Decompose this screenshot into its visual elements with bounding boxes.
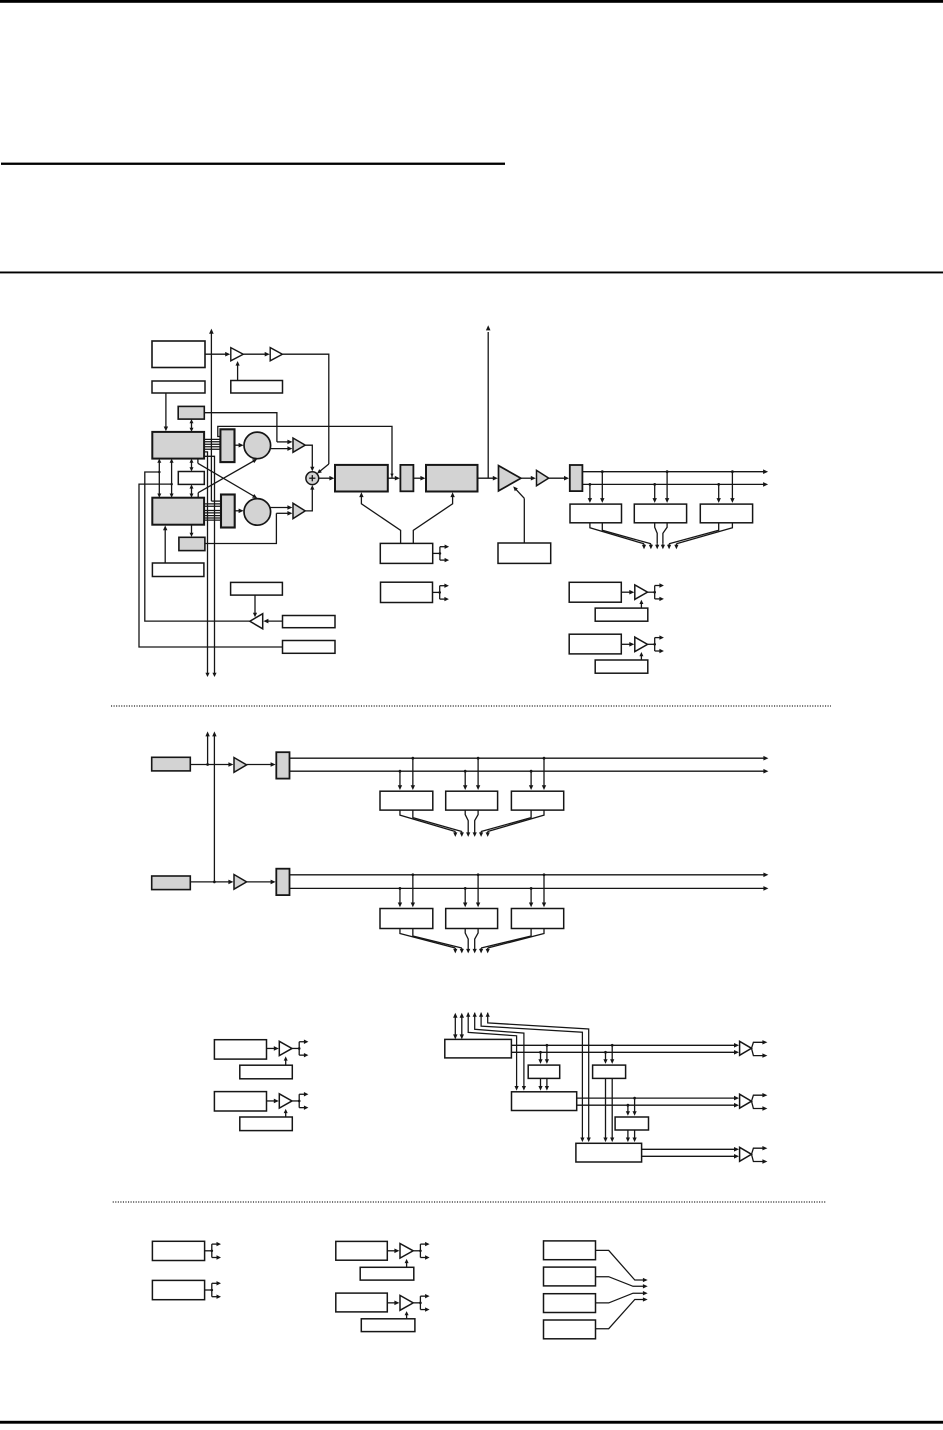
wire latch A out 2 to divider block bbox=[545, 1078, 549, 1090]
block attenuator bbox=[400, 465, 413, 491]
bus modulator I to filter I line 2 bbox=[204, 441, 220, 443]
bus stub 2 to serial interface bbox=[460, 1013, 464, 1040]
bus modulator I to filter I line 4 bbox=[204, 446, 220, 448]
wire control register up to B1 bbox=[236, 361, 240, 381]
test DAC A converter bbox=[279, 1041, 292, 1055]
fanout monitor DAC A bbox=[413, 1242, 429, 1260]
block tuning register bbox=[380, 543, 432, 563]
block bank register 1 bbox=[152, 1241, 204, 1260]
wire offset B to amp T4 lower input bbox=[205, 511, 293, 544]
block latch B bbox=[593, 1065, 626, 1078]
wire upper rail drop into register B-1 bbox=[411, 873, 415, 907]
wire upper rail drop into register A-1 bbox=[411, 757, 415, 790]
bus modulator Q to filter Q line 5 bbox=[204, 519, 221, 521]
wire register to aux DAC 1 bbox=[621, 590, 634, 595]
wire register to monitor DAC B bbox=[387, 1301, 399, 1306]
summer node bbox=[306, 472, 319, 485]
rail A lower bbox=[290, 769, 769, 774]
wire tuning register to upconverter bottom bbox=[413, 492, 455, 543]
wire clock B tap to RF section bbox=[212, 731, 216, 883]
wire upper rail drop into register B-2 bbox=[476, 873, 480, 907]
wire filter Q to mixer Q bbox=[235, 509, 244, 514]
rail B lower bbox=[290, 886, 769, 891]
driver amp T6 bbox=[537, 470, 549, 485]
aux DAC 2 bbox=[635, 637, 648, 652]
rail divider upper bbox=[577, 1096, 739, 1101]
bus modulator Q to filter Q line 4 bbox=[204, 517, 221, 519]
wire clock A tap to RF section bbox=[205, 731, 209, 765]
wire control up to monitor DAC A bbox=[405, 1259, 409, 1267]
block monitor DAC A control bbox=[360, 1267, 414, 1280]
rail serial upper bbox=[511, 1043, 739, 1048]
bus modulator Q to filter Q line 3 bbox=[204, 515, 221, 517]
bus clock registers A to control core bbox=[400, 810, 544, 837]
wire register loop lower bbox=[139, 484, 283, 647]
block test DAC A control bbox=[240, 1065, 292, 1079]
wire driver to output stage bbox=[549, 476, 569, 481]
block test DAC A register bbox=[214, 1040, 266, 1059]
wire filter I to mixer I bbox=[235, 443, 244, 448]
rail B upper bbox=[290, 873, 769, 878]
wire divider tap 2 into latch C bbox=[626, 1104, 630, 1116]
block PA ramp register bbox=[498, 543, 551, 563]
bus stub 3 routed to divider block bbox=[466, 1012, 519, 1090]
wire feedback column 2 bbox=[170, 459, 174, 498]
wire interp register to modulator Q bidirectional bbox=[190, 484, 194, 497]
block mux register 2 bbox=[544, 1267, 596, 1286]
wire T4 to summer bbox=[305, 485, 314, 511]
block aux DAC 1 register bbox=[569, 582, 621, 602]
wire serial tap 2 into latch A bbox=[538, 1051, 542, 1064]
block status register bbox=[283, 641, 336, 654]
wire rail upper drop into RF register 1 bbox=[600, 470, 604, 503]
wire PA to driver bbox=[521, 476, 536, 481]
block monitor DAC A register bbox=[336, 1241, 388, 1260]
wire latch C out 2 to output block bbox=[633, 1130, 637, 1142]
wire register A to modulator I bidirectional bbox=[190, 419, 194, 432]
block clock register A-2 bbox=[446, 791, 498, 810]
wire mux register 2 to combiner bbox=[596, 1277, 648, 1289]
wire control up to test DAC B bbox=[284, 1109, 288, 1117]
wire filter to attenuator with mod tap bbox=[388, 474, 400, 481]
block mux register 4 bbox=[544, 1320, 596, 1339]
block TX control register bbox=[152, 381, 205, 393]
fanout bank register 2 bbox=[205, 1281, 221, 1299]
wire mux register 3 to combiner bbox=[596, 1291, 648, 1303]
wire upper rail drop into register A-3 bbox=[542, 757, 546, 790]
wire rail lower drop into RF register 3 bbox=[717, 483, 721, 503]
block output stage bbox=[570, 465, 583, 491]
wire modulator I tap down-left bbox=[204, 452, 210, 677]
block low-pass filter bbox=[335, 465, 388, 492]
fanout test DAC A outputs bbox=[292, 1040, 308, 1058]
wire ramp register to PA bbox=[513, 486, 524, 543]
fanout gain register outputs bbox=[433, 584, 449, 602]
wire register to test DAC B bbox=[267, 1099, 279, 1104]
bus modulator I to filter I line 5 bbox=[204, 448, 220, 450]
output buffer CLK3 bbox=[740, 1146, 768, 1164]
wire RF out vertical bbox=[486, 325, 491, 478]
mixer I bbox=[244, 432, 271, 459]
wire register to monitor DAC A bbox=[387, 1249, 399, 1254]
block test DAC B control bbox=[240, 1117, 292, 1131]
buffer B1 bbox=[231, 348, 244, 361]
block threshold register bbox=[283, 616, 336, 628]
wire control up to aux DAC 1 bbox=[639, 600, 643, 608]
wire summer to filter block bbox=[319, 476, 335, 481]
fanout test DAC B outputs bbox=[292, 1092, 308, 1110]
wire diagonal into summer bbox=[317, 464, 329, 474]
fanout aux DAC 2 outputs bbox=[648, 635, 664, 653]
output buffer CLK1 bbox=[740, 1040, 768, 1058]
block clock register B-1 bbox=[380, 909, 433, 929]
wire latch A out 1 to divider block bbox=[538, 1078, 542, 1090]
rail RF upper bbox=[582, 469, 768, 474]
wire control up to monitor DAC B bbox=[405, 1311, 409, 1319]
wire rail upper drop into RF register 2 bbox=[665, 470, 669, 503]
block upconverter bbox=[426, 465, 478, 492]
monitor DAC A converter bbox=[400, 1244, 413, 1259]
wire serial tap 3 into latch B bbox=[610, 1044, 614, 1064]
block test DAC B register bbox=[214, 1092, 266, 1111]
monitor DAC B converter bbox=[400, 1295, 413, 1310]
wire serial tap 1 into latch A bbox=[545, 1044, 549, 1064]
block divider A bbox=[276, 752, 289, 778]
wire register to test DAC A bbox=[267, 1046, 279, 1051]
wire reference down to comparator bbox=[253, 595, 257, 617]
rail serial lower bbox=[511, 1050, 739, 1055]
rail output upper bbox=[642, 1147, 739, 1152]
wire lower rail drop into register B-3 bbox=[529, 887, 533, 907]
block monitor DAC B control bbox=[361, 1319, 415, 1332]
rail RF lower bbox=[582, 482, 768, 487]
wire serial tap 4 into latch B bbox=[603, 1051, 607, 1064]
page bottom border rule bbox=[0, 1421, 943, 1424]
wire latch B out 1 to output block bbox=[603, 1078, 607, 1142]
wire rail upper drop into RF register 3 bbox=[730, 470, 734, 503]
wire B1 to B2 bbox=[243, 352, 269, 357]
block clock register A-1 bbox=[380, 791, 433, 810]
block TX data register bbox=[152, 341, 205, 368]
wire filter I to mod path junction bbox=[218, 426, 392, 477]
block serial interface bbox=[445, 1039, 512, 1058]
wire feedback column 1 bbox=[157, 459, 161, 498]
wire upper rail drop into register A-2 bbox=[476, 757, 480, 790]
wire lower rail drop into register B-2 bbox=[463, 887, 467, 907]
wire T3 to summer bbox=[305, 445, 314, 471]
buffer B2 bbox=[270, 348, 282, 361]
block clock register B-2 bbox=[446, 909, 498, 929]
block comparator reference register bbox=[231, 582, 283, 595]
wire upper rail drop into register B-3 bbox=[542, 873, 546, 907]
wire register to aux DAC 2 bbox=[621, 642, 634, 647]
wire oscillator B to buffer bbox=[190, 880, 233, 885]
wire mux register 4 to combiner bbox=[596, 1297, 648, 1328]
fanout monitor DAC B bbox=[413, 1294, 429, 1312]
bus stub 4 routed to divider block bbox=[473, 1012, 526, 1090]
wire control up to aux DAC 2 bbox=[639, 652, 643, 660]
bus stub 6 routed to output block bbox=[486, 1012, 591, 1142]
amp T3 bbox=[293, 438, 305, 452]
block clock register B-3 bbox=[511, 909, 563, 929]
bus clock registers B to control core bbox=[400, 929, 544, 954]
block mux register 1 bbox=[544, 1241, 596, 1260]
wire modulator Q to offset register B bbox=[190, 525, 194, 537]
header separator rule bbox=[0, 272, 943, 274]
summer plus sign bbox=[309, 475, 315, 481]
wire lower rail drop into register A-3 bbox=[529, 770, 533, 790]
block B1 control register bbox=[231, 381, 283, 394]
wire mixer Q to amp T4 upper input bbox=[270, 505, 292, 510]
block bank register 2 bbox=[152, 1280, 204, 1299]
block RF register 1 bbox=[570, 504, 622, 523]
fanout tuning register outputs bbox=[433, 545, 449, 563]
block output driver bbox=[576, 1143, 642, 1162]
bus modulator Q upper line 2 bbox=[204, 505, 221, 507]
block RF register 2 bbox=[634, 504, 686, 523]
comparator T5 bbox=[250, 614, 263, 629]
block latch A bbox=[528, 1065, 560, 1078]
aux DAC 1 bbox=[635, 585, 648, 600]
bus stub 1 to serial interface bbox=[453, 1013, 457, 1040]
wire comparator loop upper bbox=[145, 472, 250, 621]
test DAC B converter bbox=[279, 1094, 292, 1108]
cross wire modulator Q to mixer I bbox=[198, 459, 257, 498]
block aux DAC 2 control bbox=[595, 660, 648, 673]
wire LO vertical to top bbox=[209, 329, 221, 502]
bus modulator I to filter I line 3 bbox=[204, 443, 220, 445]
block oscillator B bbox=[152, 876, 191, 890]
page top border rule bbox=[0, 0, 943, 3]
block clock register A-3 bbox=[511, 791, 563, 810]
bus modulator Q to filter Q line 1 bbox=[204, 510, 221, 512]
block divider bbox=[512, 1092, 577, 1111]
wire register to buffer B1 bbox=[205, 352, 230, 357]
bus modulator Q upper line 1 bbox=[204, 503, 221, 505]
wire divider tap 1 into latch C bbox=[633, 1097, 637, 1116]
wire oscillator A to buffer bbox=[190, 762, 233, 767]
block offset register B bbox=[179, 537, 205, 550]
dotted section separator 1 bbox=[111, 705, 831, 707]
block modulator I bbox=[152, 432, 204, 459]
power amplifier PA bbox=[499, 466, 521, 491]
wire control up to test DAC A bbox=[284, 1056, 288, 1065]
wire mux register 1 to combiner bbox=[596, 1250, 648, 1282]
wire tuning register to filter bottom bbox=[359, 492, 400, 543]
wire buffer A to divider bbox=[247, 762, 276, 767]
block aux DAC 1 control bbox=[595, 608, 648, 621]
title underline rule bbox=[1, 163, 505, 165]
wire rail lower drop into RF register 2 bbox=[653, 483, 657, 503]
dotted section separator 2 bbox=[113, 1201, 826, 1203]
wire mixer I to amp T3 lower input bbox=[270, 446, 292, 451]
bus modulator Q to filter Q line 2 bbox=[204, 512, 221, 514]
wire offset A to amp T3 upper input bbox=[204, 413, 292, 445]
wire calibration up to modulator Q bbox=[163, 525, 167, 563]
block gain register bbox=[381, 582, 433, 602]
rail output lower bbox=[642, 1154, 739, 1159]
amp T4 bbox=[293, 503, 305, 518]
rail divider lower bbox=[577, 1103, 739, 1108]
fanout aux DAC 1 outputs bbox=[648, 583, 664, 601]
block modulator Q bbox=[152, 498, 204, 525]
wire lower rail drop into register A-1 bbox=[398, 770, 402, 790]
block RF register 3 bbox=[700, 504, 752, 523]
wire latch C out 1 to output block bbox=[626, 1130, 630, 1142]
block offset register A bbox=[178, 406, 204, 419]
wire lower rail drop into register A-2 bbox=[463, 770, 467, 790]
block divider B bbox=[276, 869, 289, 895]
bus modulator I to filter I line 1 bbox=[204, 438, 220, 440]
wire rail lower drop into RF register 1 bbox=[588, 483, 592, 503]
wire upconverter to PA with RF tap bbox=[478, 476, 498, 481]
block oscillator A bbox=[152, 757, 191, 771]
wire control register down to modulator I bbox=[164, 393, 168, 431]
wire modulator I tap down-right bbox=[204, 456, 217, 677]
rail A upper bbox=[290, 756, 769, 761]
wire buffer B to divider bbox=[247, 880, 276, 885]
wire modulator I to interp register bidirectional bbox=[190, 459, 194, 472]
wire attenuator to mixer stage bbox=[413, 476, 425, 481]
bus RF registers to control core bbox=[590, 523, 733, 549]
wire lower rail drop into register B-1 bbox=[398, 887, 402, 907]
block filter I bbox=[220, 429, 234, 462]
block aux DAC 2 register bbox=[569, 634, 621, 654]
wire B2 output loop to summer bbox=[282, 354, 328, 464]
wire latch B out 2 to output block bbox=[610, 1078, 614, 1142]
fanout bank register 1 bbox=[205, 1242, 221, 1260]
output buffer CLK2 bbox=[740, 1093, 768, 1111]
bus stub 5 routed to output block bbox=[479, 1012, 585, 1142]
mixer Q bbox=[244, 499, 271, 526]
block mux register 3 bbox=[544, 1294, 596, 1313]
buffer amp A bbox=[234, 758, 247, 773]
block calibration register bbox=[152, 563, 204, 577]
block latch C bbox=[615, 1117, 648, 1130]
block filter Q bbox=[221, 495, 235, 528]
cross wire modulator I to mixer Q bbox=[198, 459, 257, 499]
block monitor DAC B register bbox=[336, 1293, 388, 1312]
buffer amp B bbox=[234, 875, 247, 890]
block interpolation register bbox=[178, 472, 204, 485]
wire threshold to comparator bbox=[263, 619, 282, 624]
